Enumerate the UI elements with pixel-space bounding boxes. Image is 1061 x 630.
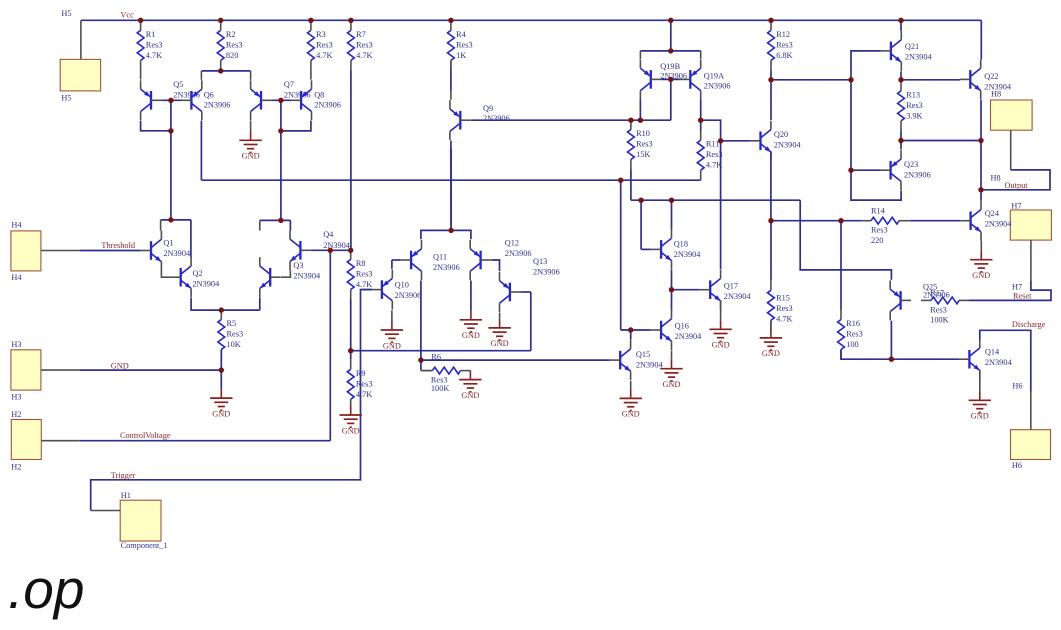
wire Q3 Q4 collectors — [260, 219, 291, 221]
svg-text:Q23: Q23 — [904, 160, 918, 169]
transistor Q19B PNP — [640, 59, 687, 99]
svg-text:R16: R16 — [846, 319, 860, 328]
port H3 GND — [11, 350, 41, 390]
wire R1 to Q5 emitter — [140, 70, 142, 79]
wire Q24 emitter to ground — [980, 241, 982, 251]
transistor Q20 NPN — [750, 121, 801, 161]
transistor Q21 NPN — [881, 31, 933, 71]
svg-text:.op: .op — [8, 558, 84, 620]
wire riser to Q19 bases — [670, 79, 672, 120]
transistor Q23 PNP — [880, 150, 931, 190]
wire R13 node across — [901, 140, 981, 142]
svg-text:Res3: Res3 — [431, 376, 448, 385]
transistor Q5 PNP — [141, 80, 200, 120]
resistor R7 — [348, 20, 373, 70]
ground R6 — [459, 371, 481, 400]
svg-text:Q14: Q14 — [985, 348, 1000, 357]
svg-text:Res3: Res3 — [930, 306, 947, 315]
transistor Q3 NPN — [260, 257, 321, 297]
wire Q6 collector down — [200, 121, 202, 181]
svg-text:2N3906: 2N3906 — [704, 81, 731, 90]
svg-text:Q19A: Q19A — [704, 72, 724, 81]
node R10 top — [628, 118, 633, 123]
svg-text:Res3: Res3 — [846, 330, 863, 339]
node Q25 collector Q14 base — [889, 357, 894, 362]
svg-text:Output: Output — [1005, 181, 1029, 190]
ground Q13 — [488, 319, 510, 348]
svg-text:2N3904: 2N3904 — [985, 220, 1013, 229]
transistor Q13 PNP — [500, 257, 560, 312]
node Q11 Q12 emitters — [448, 228, 453, 233]
wire Q25 collector down — [890, 321, 892, 359]
wire Q9 collector down — [450, 141, 452, 231]
wire Q13 collector to ground — [499, 312, 501, 319]
transistor Q10 PNP — [372, 270, 422, 310]
svg-text:H3: H3 — [11, 392, 21, 401]
wire rail to Q22 collector — [980, 20, 982, 59]
node Q1 collector — [168, 217, 173, 222]
ground Q15 — [620, 389, 642, 418]
wire R11 node to Q17 collector — [701, 120, 721, 269]
wire Q14 emitter to ground — [979, 370, 981, 391]
wire R12 to Q20 collector — [770, 80, 772, 120]
wire R13 to Q23 emitter — [900, 131, 902, 150]
wire common bus — [201, 179, 700, 181]
node R5 top — [219, 307, 224, 312]
node Output — [978, 187, 983, 192]
svg-text:GND: GND — [242, 152, 260, 161]
wire R6 left lead — [421, 370, 433, 372]
svg-text:GND: GND — [212, 409, 230, 418]
svg-text:GND: GND — [342, 426, 360, 435]
wire tail current riser — [450, 149, 452, 230]
wire Q5 collector loop — [141, 121, 171, 131]
transistor Q12 PNP — [470, 239, 531, 280]
svg-text:H7: H7 — [1012, 282, 1022, 291]
wire ControlVoltage riser — [329, 250, 331, 440]
svg-text:Q6: Q6 — [204, 90, 214, 99]
svg-text:Q2: Q2 — [193, 269, 203, 278]
wire Q16 base link — [621, 329, 651, 331]
wire Q19A collector to R11 — [700, 99, 702, 130]
node Q3 Q4 collectors — [278, 218, 283, 223]
wire Q3 emitter down — [259, 297, 261, 310]
wire R12 node to Q21 base riser — [771, 79, 851, 81]
ground Q14 — [969, 391, 991, 420]
wire R3 to Q8 emitter — [310, 70, 312, 79]
wire Vcc rail — [81, 19, 981, 21]
svg-text:3.9K: 3.9K — [906, 111, 922, 120]
node Q20 emitter R14 — [768, 218, 773, 223]
wire Threshold net — [80, 250, 141, 252]
svg-text:Q11: Q11 — [433, 253, 447, 262]
svg-text:R3: R3 — [316, 30, 326, 39]
resistor R12 — [768, 20, 793, 70]
svg-text:Threshold: Threshold — [101, 241, 135, 250]
svg-text:100K: 100K — [431, 384, 449, 393]
resistor R5 — [218, 310, 243, 360]
svg-text:H4: H4 — [11, 273, 22, 282]
wire H7 port stem — [1030, 240, 1032, 280]
ground Q10 — [381, 321, 403, 350]
svg-text:Q21: Q21 — [905, 42, 919, 51]
transistor Q11 PNP — [401, 240, 460, 280]
svg-text:Q16: Q16 — [675, 321, 689, 330]
node Q20 base — [718, 138, 723, 143]
svg-text:Res3: Res3 — [636, 140, 653, 149]
svg-text:4.7K: 4.7K — [316, 51, 332, 60]
wire stub — [250, 130, 252, 132]
ground Q16 — [660, 360, 682, 389]
svg-text:H5: H5 — [61, 9, 71, 18]
ground Q17 — [709, 320, 731, 349]
ground R9 — [340, 406, 362, 435]
wire Q3 collector up — [259, 220, 261, 230]
wire Q17 base link — [672, 289, 700, 291]
svg-text:Component_1: Component_1 — [121, 541, 168, 550]
svg-text:H6: H6 — [1012, 381, 1022, 390]
transistor Q17 NPN — [700, 270, 752, 310]
resistor R13 — [898, 81, 923, 131]
svg-text:R15: R15 — [776, 293, 790, 302]
wire Q19A emitter drop — [700, 51, 702, 59]
svg-text:Q12: Q12 — [505, 239, 519, 248]
wire Q20 emitter node to R14 — [771, 220, 861, 222]
svg-text:GND: GND — [971, 412, 989, 421]
svg-text:Res3: Res3 — [356, 379, 373, 388]
node Q18 base — [638, 198, 643, 203]
transistor Q14 NPN — [959, 339, 1012, 379]
wire R2 to Q6 Q7 emitters — [201, 70, 250, 72]
wire ControlVoltage net — [80, 440, 330, 442]
wire H8 port stem — [1010, 130, 1012, 170]
wire Q9 base line — [471, 119, 671, 121]
svg-text:2N3904: 2N3904 — [724, 292, 752, 301]
resistor R2 — [217, 20, 242, 70]
wire Q12 collector to ground — [470, 280, 472, 310]
node R13 bottom — [898, 138, 903, 143]
svg-text:Q19B: Q19B — [660, 62, 680, 71]
svg-text:Q22: Q22 — [984, 72, 998, 81]
transistor Q19A PNP — [680, 59, 731, 99]
svg-text:H2: H2 — [11, 463, 21, 472]
transistor Q15 NPN — [610, 340, 664, 380]
node Q7 Q8 bases — [278, 98, 283, 103]
wire Q11 collector down — [420, 280, 422, 360]
svg-text:H7: H7 — [1011, 201, 1021, 210]
wire Q7 emitter drop — [250, 71, 252, 80]
node Q19B collector — [638, 118, 643, 123]
wire Q4 base to R7 R8 node — [311, 249, 351, 251]
svg-text:Res3: Res3 — [356, 40, 373, 49]
wire Q16 collector riser — [671, 290, 673, 310]
svg-text:Res3: Res3 — [226, 40, 243, 49]
wire rail to Q19 emitters — [670, 20, 672, 51]
wire H1 port stem — [91, 510, 121, 512]
wire Q20 base link — [721, 140, 751, 142]
node Q19 bases — [668, 77, 673, 82]
node R6 Q11 — [418, 357, 423, 362]
node Q8 collector — [278, 128, 283, 133]
svg-text:4.7K: 4.7K — [356, 390, 372, 399]
node Q15 collector Q16 base — [628, 327, 633, 332]
wire tap to Q13 base — [351, 350, 531, 352]
svg-text:2N3906: 2N3906 — [314, 101, 341, 110]
svg-text:4.7K: 4.7K — [776, 314, 792, 323]
wire Output net — [981, 170, 1050, 190]
wire Q15 collector riser — [630, 330, 632, 340]
svg-text:Q20: Q20 — [774, 130, 788, 139]
svg-text:Trigger: Trigger — [111, 471, 136, 480]
wire Q16 emitter to ground — [671, 350, 673, 359]
svg-text:2N3904: 2N3904 — [293, 272, 321, 281]
resistor R11 — [697, 130, 722, 180]
wire R15 to ground — [770, 320, 772, 329]
wire Q12 base to Q13 emitter — [491, 260, 499, 271]
svg-text:Q3: Q3 — [293, 261, 303, 270]
wire Q7 collector to ground — [250, 121, 252, 132]
svg-text:2N3904: 2N3904 — [163, 249, 191, 258]
svg-text:R10: R10 — [636, 129, 650, 138]
wire R2 bottom — [220, 69, 222, 72]
transistor Q8 PNP — [291, 80, 341, 120]
node rail R4 — [448, 18, 453, 23]
node Q17 base — [669, 287, 674, 292]
resistor R4 — [448, 20, 473, 70]
svg-text:R12: R12 — [776, 30, 790, 39]
wire H5 port stem — [80, 20, 82, 59]
wire Trigger net — [91, 290, 372, 511]
resistor R16 — [838, 310, 863, 360]
svg-text:Res3: Res3 — [227, 330, 244, 339]
node R7 R8 Q4 base — [348, 248, 353, 253]
svg-text:220: 220 — [871, 236, 883, 245]
ground R15 — [760, 329, 782, 358]
svg-text:GND: GND — [762, 349, 780, 358]
wire Q7 base down — [280, 100, 282, 131]
wire R10 Q18 Q25 line — [631, 199, 800, 201]
wire R12 bottom — [770, 70, 772, 79]
wire H6 port stem — [1030, 392, 1032, 430]
wire R8 to R9 — [350, 300, 352, 360]
transistor Q9 PNP — [450, 100, 510, 140]
wire Q13 base link — [520, 291, 531, 293]
node GND net — [219, 367, 224, 372]
svg-text:GND: GND — [663, 380, 681, 389]
svg-text:GND: GND — [712, 341, 730, 350]
resistor R17 — [921, 289, 969, 325]
wire Q20 emitter down — [770, 152, 772, 221]
svg-text:GND: GND — [111, 361, 129, 370]
svg-text:Res3: Res3 — [456, 40, 473, 49]
svg-text:100: 100 — [846, 340, 858, 349]
transistor Q18 NPN — [651, 229, 702, 269]
wire Q23 base link — [851, 169, 880, 171]
node Q5 collector — [168, 128, 173, 133]
node R16 top — [838, 218, 843, 223]
node rail R7 — [348, 18, 353, 23]
transistor Q16 NPN — [651, 310, 702, 350]
ground Q7 — [239, 131, 261, 160]
svg-text:2N3904: 2N3904 — [193, 279, 221, 288]
resistor R1 — [137, 20, 162, 70]
svg-text:2N3904: 2N3904 — [984, 82, 1012, 91]
svg-text:R4: R4 — [456, 30, 467, 39]
wire down to R6 — [420, 360, 422, 371]
wire Q19B emitter drop — [639, 51, 641, 59]
wire R5 to ground — [220, 350, 222, 390]
svg-text:2N3906: 2N3906 — [923, 290, 950, 299]
svg-text:Q13: Q13 — [533, 257, 547, 266]
wire R7 down to Q4 base node — [350, 70, 352, 250]
svg-text:Res3: Res3 — [316, 40, 333, 49]
node R12 bottom — [768, 77, 773, 82]
svg-text:1K: 1K — [456, 51, 466, 60]
svg-text:R2: R2 — [226, 30, 236, 39]
resistor R8 — [347, 250, 372, 300]
node R13 line right — [978, 138, 983, 143]
wire Q19 emitter loop — [640, 50, 700, 52]
wire to R15 — [770, 221, 772, 281]
svg-text:Q17: Q17 — [724, 281, 738, 290]
ground Q12 — [460, 311, 482, 340]
svg-text:Q8: Q8 — [314, 90, 324, 99]
wire R9 to ground — [350, 399, 352, 406]
svg-text:H1: H1 — [121, 491, 131, 500]
svg-text:15K: 15K — [636, 150, 650, 159]
svg-text:Q24: Q24 — [985, 209, 1000, 218]
transistor Q2 NPN — [170, 257, 220, 297]
node Q19 emitters — [668, 48, 673, 53]
port H7 Reset — [1010, 210, 1051, 240]
svg-text:2N3904: 2N3904 — [675, 332, 703, 341]
wire Trigger to Q10 base — [361, 289, 372, 291]
wire Q17 emitter to ground — [720, 300, 722, 320]
port H4 Threshold — [11, 231, 41, 271]
svg-text:Q5: Q5 — [173, 80, 183, 89]
wire Q21 emitter stub — [900, 71, 902, 80]
svg-text:H5: H5 — [61, 94, 71, 103]
svg-text:H2: H2 — [11, 410, 21, 419]
svg-text:Res3: Res3 — [871, 226, 888, 235]
wire Q5-Q6 base link — [161, 99, 181, 101]
node rail R1 — [138, 18, 143, 23]
svg-text:Reset: Reset — [1013, 292, 1032, 301]
node R8 R9 tap — [348, 348, 353, 353]
wire Q11 Q12 emitters — [421, 230, 471, 239]
node rail R2 — [218, 18, 223, 23]
svg-text:R1: R1 — [146, 30, 156, 39]
wire Q11 base to Q10 — [392, 259, 401, 261]
svg-text:2N3904: 2N3904 — [774, 141, 802, 150]
wire R4 pin — [450, 60, 452, 70]
svg-text:2N3906: 2N3906 — [433, 263, 460, 272]
wire to Q25 emitter — [800, 200, 891, 280]
svg-text:2N3906: 2N3906 — [533, 268, 560, 277]
svg-text:Q15: Q15 — [636, 350, 650, 359]
wire Q8 collector loop — [281, 121, 311, 131]
port H8 Output — [991, 100, 1033, 130]
node Q21 emitter — [898, 77, 903, 82]
svg-text:R8: R8 — [356, 259, 366, 268]
wire Q18 base drop — [640, 200, 642, 249]
node R2 bottom — [218, 68, 223, 73]
wire GND net from H3 — [80, 369, 221, 371]
svg-text:2N3904: 2N3904 — [985, 358, 1013, 367]
resistor R9 — [347, 359, 372, 409]
transistor Q25 PNP — [890, 280, 950, 320]
wire R4 to Q9 emitter — [450, 70, 452, 90]
wire Q21 base to Q23 — [851, 51, 901, 200]
svg-text:GND: GND — [462, 331, 480, 340]
wire Q15 emitter to ground — [630, 381, 632, 390]
svg-text:H4: H4 — [11, 221, 22, 230]
node Q5 Q6 bases — [168, 98, 173, 103]
ground R5 — [210, 389, 232, 418]
svg-text:Res3: Res3 — [906, 101, 923, 110]
wire Q4 emitter to Q3 base — [281, 271, 291, 278]
resistor R6 — [422, 353, 470, 394]
svg-text:R7: R7 — [356, 30, 366, 39]
transistor Q7 PNP — [251, 80, 311, 120]
wire R6 node to Q15 base — [421, 359, 610, 361]
svg-text:4.7K: 4.7K — [356, 280, 372, 289]
svg-text:Q18: Q18 — [674, 239, 688, 248]
svg-text:2N3904: 2N3904 — [636, 360, 664, 369]
transistor Q1 NPN — [141, 231, 191, 271]
wire Q18 base link — [641, 248, 651, 250]
wire Q2 collector up — [190, 220, 192, 257]
node ControlVoltage tap — [328, 248, 333, 253]
wire Q19B collector down — [639, 99, 641, 120]
wire R14 to Q24 base — [909, 220, 960, 222]
port H2 ControlVoltage — [11, 420, 41, 460]
wire Q4 collector up — [289, 220, 291, 230]
wire R16 to Q14 base — [841, 350, 959, 360]
svg-text:820: 820 — [226, 51, 238, 60]
resistor R10 — [628, 120, 653, 170]
svg-text:Q4: Q4 — [323, 230, 334, 239]
wire Q1 emitter to Q2 base — [161, 271, 170, 278]
svg-text:2N3904: 2N3904 — [674, 250, 702, 259]
svg-text:4.7K: 4.7K — [356, 51, 372, 60]
svg-text:Q1: Q1 — [163, 239, 173, 248]
svg-text:2N3906: 2N3906 — [904, 170, 931, 179]
wire Q13 base riser — [530, 292, 532, 351]
svg-text:10K: 10K — [227, 340, 241, 349]
svg-text:Res3: Res3 — [146, 40, 163, 49]
transistor Q22 NPN — [960, 59, 1012, 99]
node R11 top — [698, 118, 703, 123]
node rail R3 — [308, 18, 313, 23]
wire R10 bottom — [630, 170, 632, 201]
svg-text:2N3904: 2N3904 — [905, 53, 933, 62]
svg-text:2N3906: 2N3906 — [483, 114, 510, 123]
wire Q18 emitter down — [671, 270, 673, 290]
transistor Q6 PNP — [181, 80, 230, 120]
resistor R3 — [308, 20, 333, 70]
node rail Q21 — [898, 18, 903, 23]
wire Q5 base down — [170, 100, 172, 131]
svg-text:GND: GND — [972, 271, 990, 280]
wire Q21 emitter to Q22 base — [901, 79, 960, 81]
svg-text:ControlVoltage: ControlVoltage — [120, 431, 171, 440]
wire Reset net — [969, 280, 1051, 300]
wire H2 port stem — [41, 440, 80, 442]
wire Q1 collector up — [160, 220, 162, 231]
transistor Q24 NPN — [960, 201, 1012, 241]
wire mirror to Q3Q4 collector node — [280, 131, 282, 221]
